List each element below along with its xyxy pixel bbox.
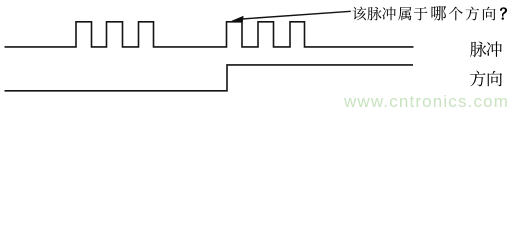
svg-text:www.cntronics.com: www.cntronics.com — [343, 92, 509, 111]
